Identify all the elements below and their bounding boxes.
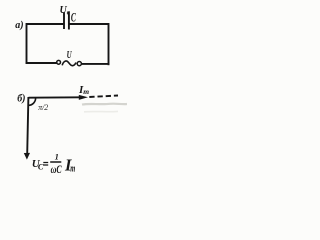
panel label б) — [17, 94, 25, 105]
svg-text:U: U — [67, 50, 73, 61]
svg-text:Im: Im — [78, 84, 89, 96]
wire: right side of loop — [108, 23, 110, 65]
capacitor C1 left plate — [63, 12, 65, 29]
wire: bottom side, left segment to source terminal — [26, 62, 57, 64]
ac source terminal circle (left) — [57, 60, 61, 64]
svg-text:1: 1 — [55, 151, 59, 161]
svg-text:а): а) — [15, 20, 23, 31]
phasor Im arrow shaft — [29, 96, 81, 98]
wire: left side of loop — [26, 23, 28, 64]
dashed extension of Im axis — [89, 96, 118, 98]
svg-text:C: C — [38, 162, 44, 172]
svg-text:б): б) — [17, 94, 25, 105]
formula Uc = (1/ωC) Im — [32, 151, 75, 176]
panel label а) — [15, 20, 23, 31]
faint print smudge "Uc" at top edge — [60, 5, 70, 17]
angle arc π/2 — [29, 98, 36, 105]
wire: top side of loop, left of capacitor — [27, 23, 65, 25]
wire: bottom side, right segment from source terminal — [82, 63, 110, 65]
ac source sine (tilde) symbol — [62, 61, 76, 66]
phasor Uc arrow shaft — [27, 97, 28, 154]
capacitor value label C — [71, 10, 76, 24]
angle label π/2 — [38, 102, 49, 112]
svg-text:C: C — [71, 10, 76, 24]
phasor Im arrowhead — [79, 95, 88, 100]
svg-text:π/2: π/2 — [38, 102, 49, 112]
phasor label Im — [78, 84, 89, 96]
source voltage label U — [67, 50, 73, 61]
wire: top side of loop, right of capacitor — [69, 23, 109, 25]
ac source terminal circle (right) — [77, 62, 81, 66]
capacitor C1 right plate — [68, 12, 70, 30]
svg-text:ωC: ωC — [51, 162, 63, 176]
faint show-through smudge below dashed line — [82, 104, 127, 112]
svg-text:m: m — [70, 164, 75, 175]
phasor Uc arrowhead — [24, 153, 30, 160]
